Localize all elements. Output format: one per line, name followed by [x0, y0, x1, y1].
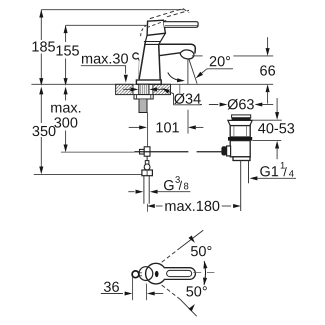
threaded stud: [139, 99, 147, 113]
dimension 155 arrows: [64, 25, 68, 33]
top view: lever slot: [167, 270, 192, 276]
top view: lower 50 degree dashed line: [162, 285, 180, 299]
svg-text:Ø63: Ø63: [227, 97, 254, 113]
drain flange: [228, 120, 252, 125]
top view: lever bar: [164, 268, 195, 280]
supply connection nut: [142, 170, 153, 176]
pop-up knob side view: [133, 53, 139, 59]
locknut under deck: [134, 95, 153, 99]
dimension arrows for hole Ø34: [123, 88, 131, 90]
svg-text:20°: 20°: [209, 54, 231, 70]
supply pipe: [144, 176, 149, 204]
svg-text:max.30: max.30: [81, 52, 129, 68]
dimension max300 arrows: [64, 87, 68, 95]
pop-up rod cross fitting: [140, 149, 145, 154]
threaded shank through deck: [139, 84, 149, 94]
drain rod clamp knob: [221, 146, 226, 155]
svg-text:350: 350: [32, 124, 56, 140]
dimension 155 vertical line: [65, 25, 67, 146]
tick line top of 155: [66, 24, 147, 26]
handle lever rod: [164, 22, 199, 28]
top view: upper 50 degree dashed line: [162, 248, 180, 262]
water stream vertical line: [187, 59, 189, 84]
dimension max.180: [147, 204, 155, 208]
dimension 101: [129, 126, 140, 128]
drain plug dark edge: [232, 118, 251, 121]
horizontal pop-up rod (faucet side): [134, 151, 188, 153]
dimension 185 vertical line: [40, 10, 42, 168]
drain pop-up waste: plug top: [232, 115, 251, 118]
drain lower body: [230, 141, 250, 157]
dimension 185 arrows: [39, 10, 43, 18]
pop-up rod lower link: [146, 156, 148, 160]
top view: base circle: [139, 267, 153, 281]
faucet base escutcheon: [136, 80, 161, 84]
extension line at spout outlet axis: [187, 110, 189, 134]
dimension 40-53: [276, 98, 278, 113]
svg-text:G1: G1: [259, 164, 278, 180]
svg-text:8: 8: [183, 181, 188, 192]
faucet neck joint lines: [144, 42, 160, 45]
horizontal pop-up rod (drain side): [197, 151, 222, 153]
handle lever cap: [147, 20, 165, 35]
svg-text:66: 66: [260, 63, 276, 79]
drain tailpipe: [240, 161, 242, 212]
svg-text:G: G: [163, 178, 174, 194]
aerator nozzle: [180, 50, 194, 59]
svg-text:max.180: max.180: [164, 199, 220, 215]
spout outline: [159, 44, 196, 53]
spout underside: [159, 53, 181, 56]
dimension 66: [267, 37, 269, 49]
raised handle position (dashed): [141, 9, 190, 37]
tick line bottom of 350: [34, 173, 142, 175]
drain o-ring seal: [228, 137, 252, 141]
svg-text:50°: 50°: [186, 284, 208, 300]
spout outlet plane tick lines: [192, 55, 203, 57]
top view: pop-up knob: [132, 271, 139, 278]
svg-text:101: 101: [155, 120, 179, 136]
svg-text:40-53: 40-53: [258, 121, 295, 137]
drain bottom nut: [233, 157, 250, 161]
tick line bottom of max300 merging with pop-up rod level: [61, 151, 134, 153]
rotation arc arrow: [168, 72, 183, 80]
svg-text:max.: max.: [50, 100, 81, 116]
drain lever boss: [227, 146, 231, 156]
centerline below pipe: [146, 204, 148, 212]
top view: lower arc end arrow: [188, 303, 196, 312]
basin hole edge extension line: [179, 85, 181, 94]
svg-text:300: 300: [54, 115, 78, 131]
svg-text:155: 155: [55, 43, 79, 59]
deck hatched section left: [116, 84, 133, 94]
dimension 36: [132, 276, 134, 300]
top view: cartridge dot: [155, 271, 159, 277]
svg-text:50°: 50°: [190, 244, 212, 260]
deck reference line: [31, 83, 273, 85]
top view: lever centerline extension: [193, 272, 214, 274]
svg-text:/: /: [283, 165, 287, 179]
tick line top of 185: [41, 9, 183, 11]
drain upper body: [230, 126, 250, 137]
top view: swing arc with arrows: [204, 261, 206, 285]
svg-text:185: 185: [31, 39, 55, 55]
20 degree tilted line: [189, 59, 197, 83]
dimension 350 arrows: [39, 87, 43, 95]
svg-text:/: /: [179, 179, 183, 193]
deck hatched section right: [153, 84, 171, 94]
handle hidden edge dash: [147, 20, 166, 27]
label G 3/8 with diameter arrows: [128, 191, 134, 193]
faucet body outline: [139, 42, 160, 80]
centerline below stud: [147, 113, 149, 148]
top view: upper arc end arrow: [188, 235, 196, 244]
handle neck sides: [145, 33, 165, 44]
top view: body circle: [146, 263, 167, 284]
